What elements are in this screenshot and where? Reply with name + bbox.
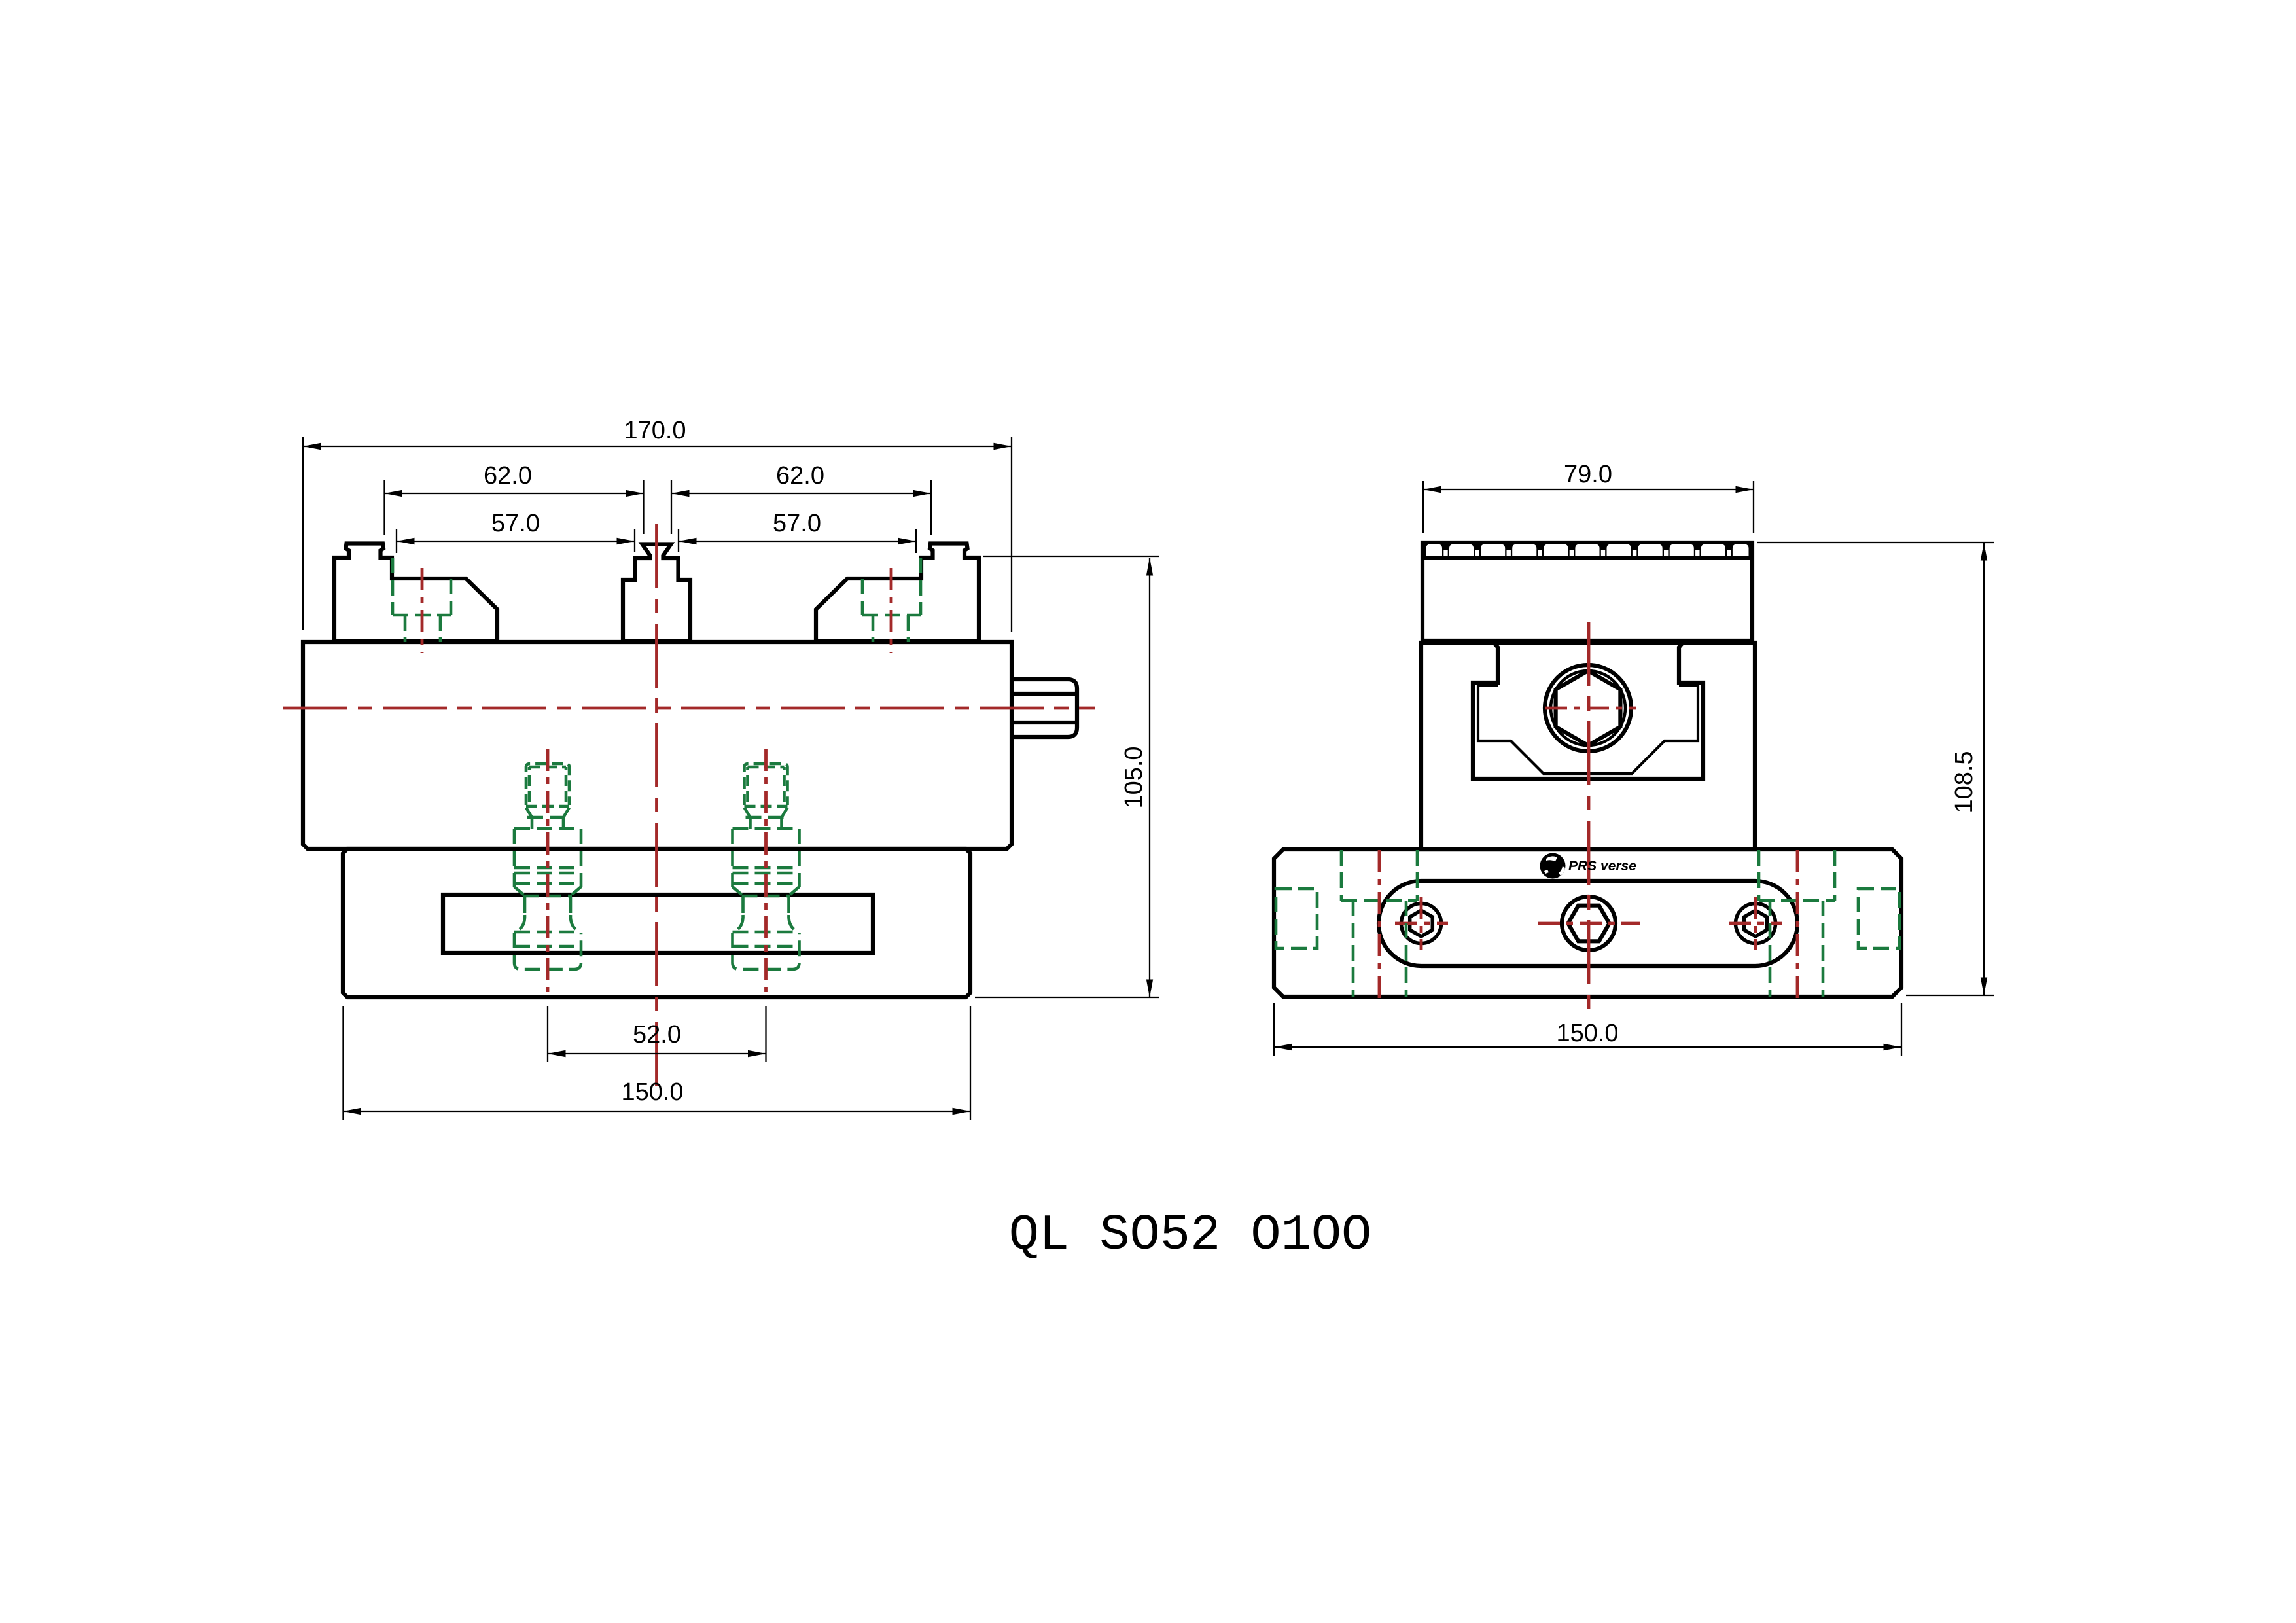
base plate (side view) [1274, 849, 1901, 997]
left screw circle [1402, 904, 1441, 944]
oval slot in base [1379, 881, 1797, 966]
dimension 62.0 right [671, 480, 672, 534]
base slot window [443, 895, 873, 953]
left screw crosshair v [1420, 897, 1423, 950]
svg-text:62.0: 62.0 [776, 462, 824, 490]
screw boss line 2 [1012, 721, 1077, 724]
right screw crosshair v [1754, 897, 1757, 950]
left screw crosshair h [1395, 922, 1448, 925]
hidden clamping stud right [745, 764, 788, 805]
svg-text:150.0: 150.0 [621, 1079, 683, 1106]
base plate (front view) [343, 849, 970, 997]
dimension 57.0 right [678, 529, 679, 552]
left screw hex [1410, 910, 1433, 936]
left slot centerline [1378, 850, 1381, 1003]
left jaw [334, 544, 497, 642]
bolt chamfer circle [1551, 671, 1625, 745]
hidden T-slot profile right [1833, 850, 1837, 901]
mid body (side view) [1421, 643, 1755, 849]
recess outer profile [1473, 643, 1703, 779]
vertical centerline (front) [655, 524, 658, 1086]
svg-text:170.0: 170.0 [624, 417, 686, 444]
hidden T-slot in right jaw [919, 558, 923, 615]
right screw circle [1736, 904, 1776, 944]
dimension 62.0 left [383, 480, 385, 535]
dimension 57.0 left [396, 529, 397, 553]
dimension 105.0 [983, 556, 1159, 557]
serrated grip band [1422, 541, 1752, 560]
dimension 150.0 front [342, 1006, 344, 1120]
bolt crosshair h [1545, 707, 1636, 710]
right slot centerline [1796, 850, 1799, 1003]
vertical centerline (side) [1587, 622, 1591, 1014]
center screw circle [1562, 897, 1616, 950]
svg-text:QL SO52 O1OO: QL SO52 O1OO [1009, 1207, 1372, 1264]
hidden T-slot in left jaw [391, 558, 395, 615]
svg-text:105.0: 105.0 [1120, 746, 1148, 808]
dimension 79.0 [1422, 481, 1424, 533]
hidden slot rect left [1276, 889, 1317, 948]
center screw crosshair h [1538, 922, 1640, 925]
vise main body (front view) [303, 642, 1012, 849]
center jaw with dovetail [623, 544, 690, 642]
screw boss line 1 [1012, 692, 1077, 696]
svg-text:150.0: 150.0 [1556, 1020, 1618, 1047]
bolt hexagon socket [1556, 671, 1621, 745]
hidden T-slot profile left [1340, 850, 1343, 901]
dimension 170.0 [302, 437, 304, 630]
left jaw centerline [421, 568, 424, 653]
horizontal centerline (front) [283, 707, 1095, 710]
right screw hex [1744, 910, 1767, 936]
recess inner profile [1478, 685, 1698, 774]
bolt outer circle [1545, 665, 1631, 751]
svg-text:108.5: 108.5 [1951, 751, 1978, 813]
dimension 52.0 [547, 1006, 548, 1062]
svg-text:79.0: 79.0 [1564, 461, 1612, 488]
drive screw boss [1012, 679, 1077, 737]
dimension 108.5 [1757, 542, 1994, 543]
center screw hex [1568, 906, 1610, 942]
right jaw [816, 544, 979, 642]
svg-text:57.0: 57.0 [491, 510, 540, 537]
svg-text:52.0: 52.0 [633, 1021, 681, 1048]
dimension 150.0 side [1273, 1003, 1275, 1056]
right jaw centerline [890, 568, 893, 653]
hidden clamping stud left [526, 764, 569, 805]
svg-text:57.0: 57.0 [773, 510, 821, 537]
PRS verse logo [1540, 853, 1566, 879]
top jaw block (side view) [1422, 543, 1752, 641]
right screw crosshair h [1729, 922, 1782, 925]
svg-text:62.0: 62.0 [484, 462, 532, 490]
svg-text:PRS verse: PRS verse [1568, 859, 1636, 874]
hidden slot rect right [1858, 889, 1899, 948]
